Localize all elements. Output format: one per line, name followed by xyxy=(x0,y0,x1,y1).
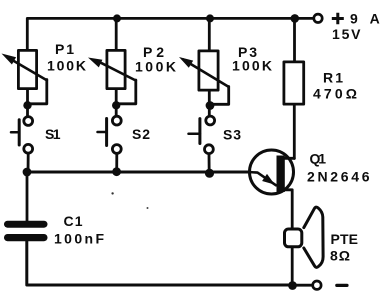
terminal minus open circle xyxy=(313,281,321,289)
switch S2 actuator stem xyxy=(98,131,107,134)
minus sign xyxy=(337,284,347,287)
transistor Q1 circle xyxy=(250,150,294,194)
svg-text:PTE: PTE xyxy=(331,231,359,247)
switch S3 actuator stem xyxy=(189,133,200,136)
wire top rail with left corner down to P1 xyxy=(27,18,313,49)
svg-text:Q1: Q1 xyxy=(310,151,327,167)
switch S3 actuator bar xyxy=(198,119,201,144)
wire S3 to bus xyxy=(208,155,211,174)
potentiometer P1 arrowhead xyxy=(2,54,17,65)
transistor Q1 base bar xyxy=(277,156,285,193)
node top rail / P2 junction xyxy=(113,14,121,22)
node bottom rail junction xyxy=(288,281,297,290)
wire C1 top lead xyxy=(26,172,29,221)
wire Q1 B2 jog xyxy=(283,157,294,160)
switch S2 top contact xyxy=(112,116,121,125)
wire speaker bottom lead xyxy=(291,248,294,285)
svg-text:470Ω: 470Ω xyxy=(313,86,357,102)
potentiometer P3 body xyxy=(199,51,218,90)
wire S1 to bus xyxy=(27,155,30,174)
node top rail / P3 junction xyxy=(206,14,214,22)
capacitor C1 top plate xyxy=(4,221,48,228)
wire P3 top lead xyxy=(208,18,211,49)
svg-text:C1: C1 xyxy=(64,213,83,229)
svg-text:100K: 100K xyxy=(47,57,86,73)
svg-text:9: 9 xyxy=(350,11,358,27)
label +9V supply plus sign xyxy=(332,13,344,24)
node bus / S3 junction xyxy=(205,169,214,178)
potentiometer P1 body xyxy=(18,50,36,88)
potentiometer P2 arrow line xyxy=(97,61,136,81)
potentiometer P2 body xyxy=(107,50,125,88)
node P2 wiper junction xyxy=(112,101,120,109)
wire P2 wiper elbow xyxy=(119,80,136,104)
wire P3 bottom lead xyxy=(208,91,211,116)
svg-text:15V: 15V xyxy=(332,26,361,42)
switch S1 actuator bar xyxy=(18,120,21,145)
wire P1 wiper elbow xyxy=(30,80,47,104)
switch S1 actuator stem xyxy=(11,131,19,134)
wire P3 wiper elbow xyxy=(212,87,229,105)
potentiometer P2 arrowhead xyxy=(88,58,102,68)
wire Q1 emitter xyxy=(248,172,276,185)
speck xyxy=(147,207,149,209)
switch S2 actuator bar xyxy=(105,119,108,146)
wire R1 bottom lead xyxy=(293,106,296,159)
svg-text:S3: S3 xyxy=(223,127,241,143)
potentiometer P3 arrow line xyxy=(183,59,229,87)
svg-text:100K: 100K xyxy=(135,58,176,74)
switch S1 bottom contact xyxy=(24,144,33,153)
svg-text:R1: R1 xyxy=(323,69,343,85)
svg-text:100nF: 100nF xyxy=(54,231,104,247)
transistor Q1 emitter arrowhead xyxy=(262,174,275,185)
svg-text:S2: S2 xyxy=(132,126,150,142)
potentiometer P3 arrowhead xyxy=(179,57,193,68)
wire C1 bottom lead and bottom rail xyxy=(27,240,293,285)
wire P2 top lead xyxy=(115,18,118,49)
node P3 wiper junction xyxy=(206,101,215,110)
resistor R1 body xyxy=(284,62,304,104)
speck xyxy=(111,192,113,194)
node bus / S2 junction xyxy=(112,167,121,176)
wire Q1 B1 jog down to speaker xyxy=(283,190,292,229)
wire emitter bus xyxy=(26,171,249,174)
node top rail / R1 junction xyxy=(291,14,300,23)
wire P2 bottom lead xyxy=(115,90,118,116)
node P1 wiper junction xyxy=(23,101,31,109)
switch S1 top contact xyxy=(24,117,33,126)
node bus / C1 junction xyxy=(23,168,32,177)
svg-text:8Ω: 8Ω xyxy=(330,247,350,263)
speaker PTE driver square xyxy=(285,229,302,247)
potentiometer P1 arrow line xyxy=(10,59,47,80)
wire R1 top lead xyxy=(293,18,296,60)
wire P1 bottom lead xyxy=(26,90,29,116)
capacitor C1 bottom plate xyxy=(4,234,48,241)
speaker PTE cone xyxy=(304,207,323,267)
switch S2 bottom contact xyxy=(112,145,121,154)
wire S2 to bus xyxy=(115,155,118,174)
svg-text:A: A xyxy=(370,11,380,27)
svg-text:S1: S1 xyxy=(45,126,61,142)
svg-text:100K: 100K xyxy=(232,57,272,73)
switch S3 top contact xyxy=(206,116,215,125)
wire to minus terminal xyxy=(296,284,312,287)
switch S3 bottom contact xyxy=(205,145,214,154)
terminal +9V open circle xyxy=(314,14,322,22)
